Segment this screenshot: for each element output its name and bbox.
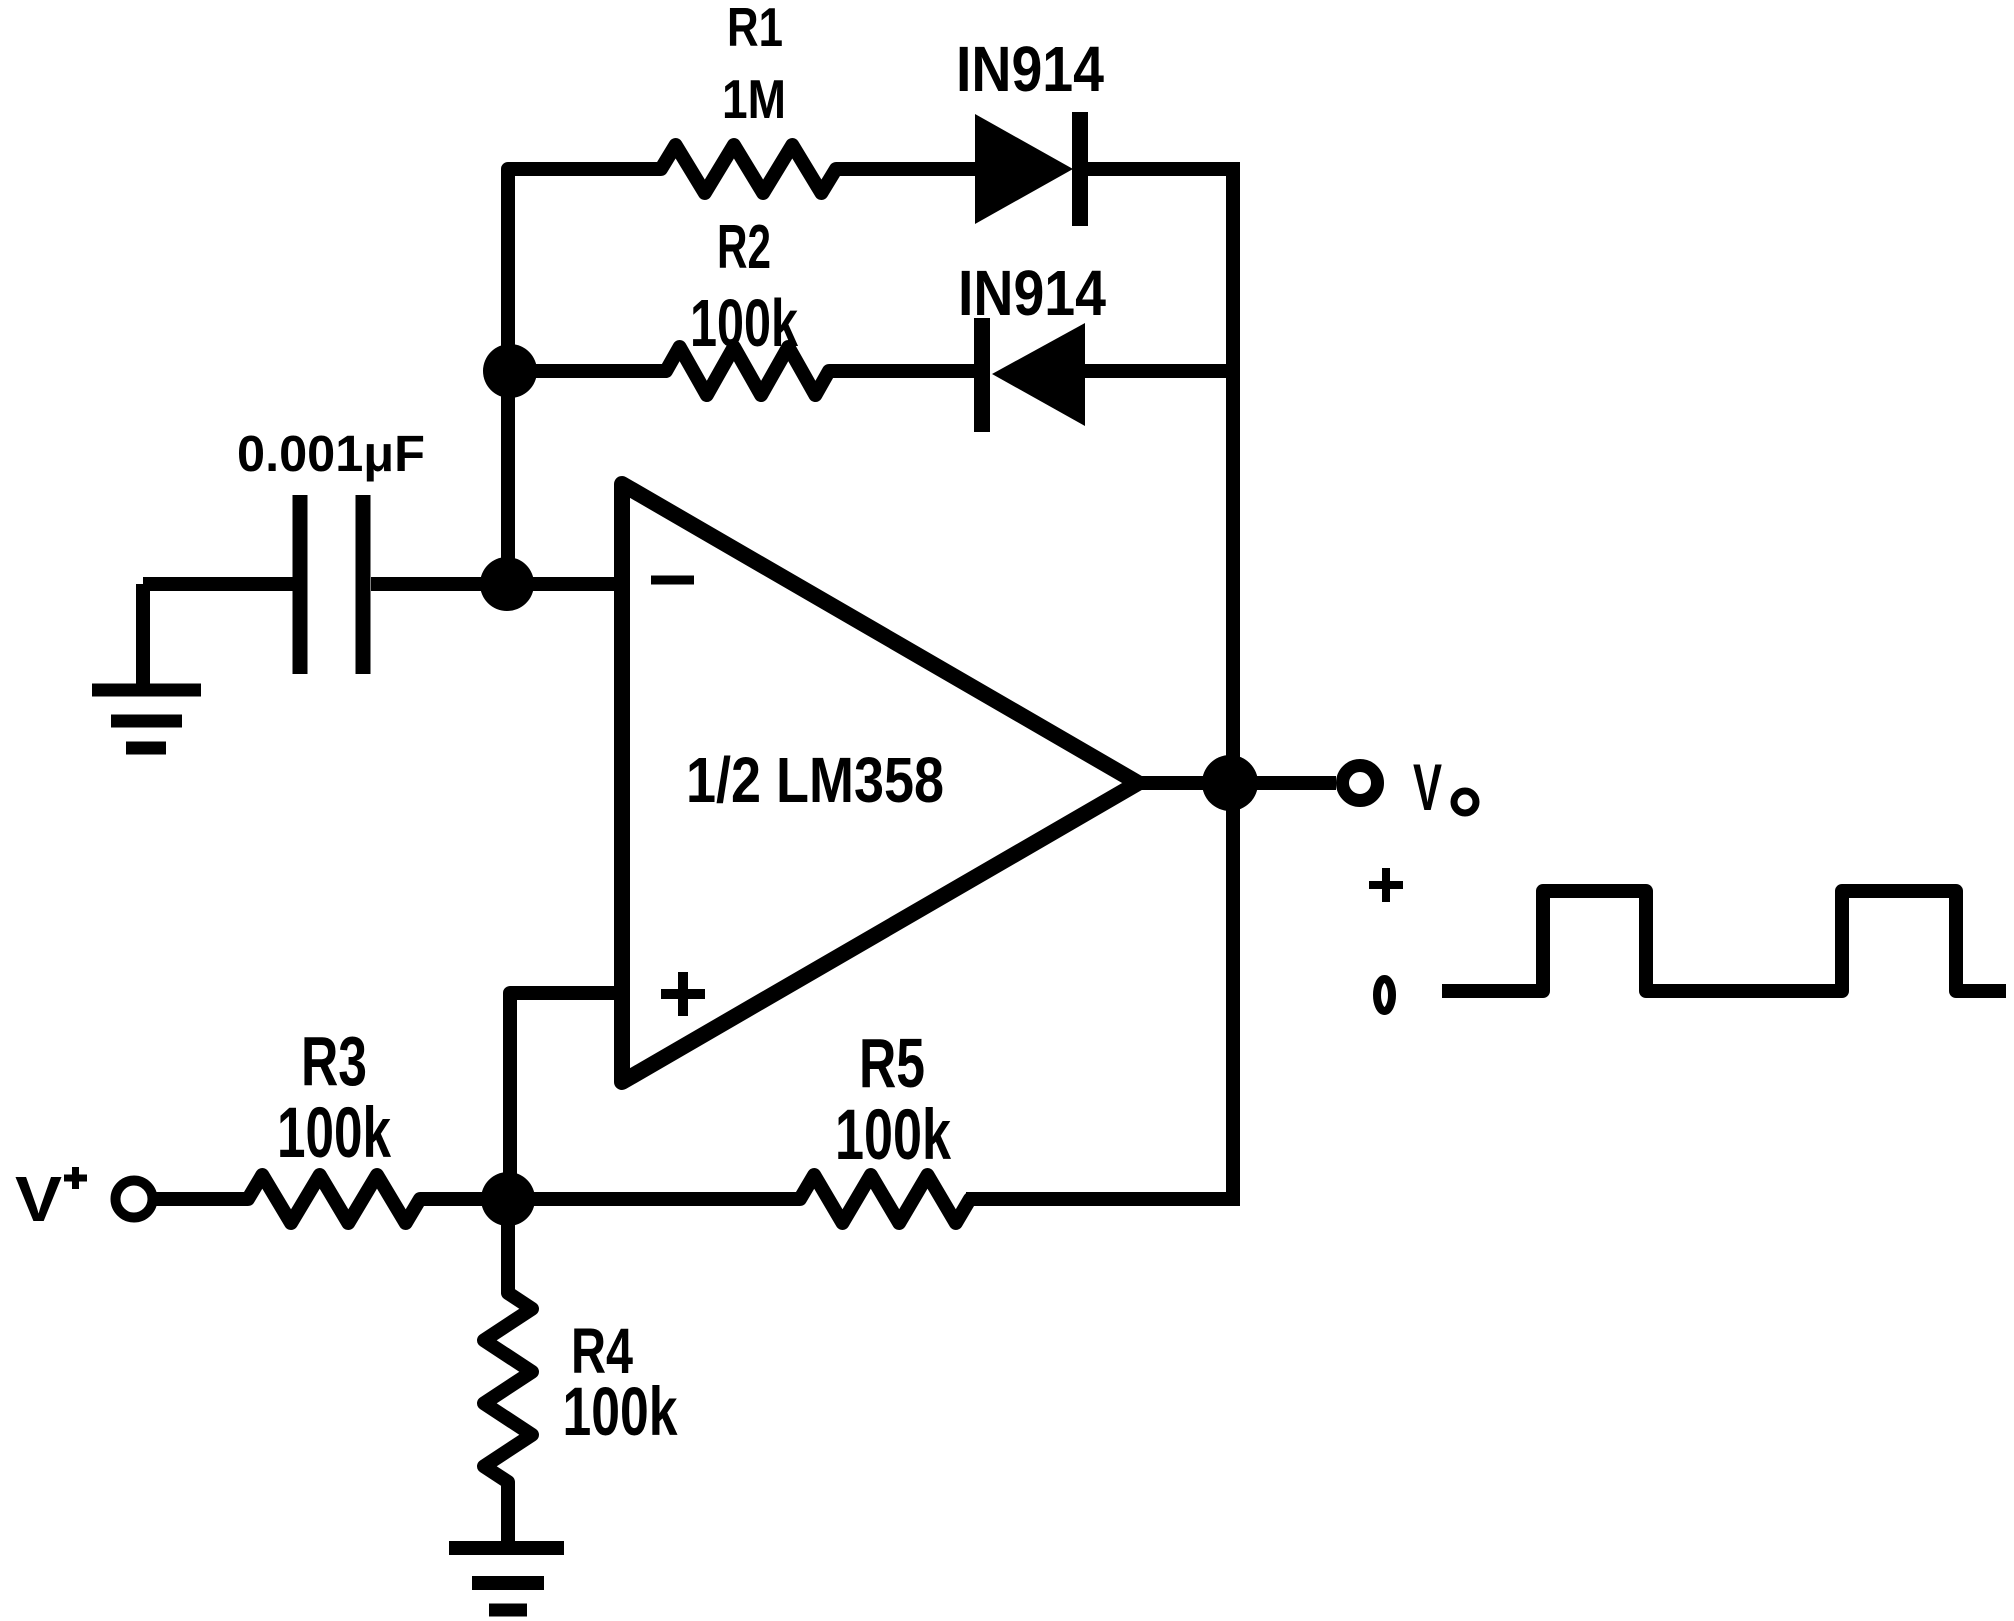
node: junction dot at R2 / left vertical <box>483 344 537 398</box>
waveform: output square wave <box>1442 891 2006 991</box>
wire: R5 to right vertical rail <box>966 1192 1240 1206</box>
node: junction dot at inverting input / left vertical <box>480 557 534 611</box>
svg-text:100k: 100k <box>277 1094 391 1173</box>
wire: bottom node down to R4 <box>501 1199 515 1293</box>
wire: R4 to ground <box>501 1482 515 1548</box>
wire: non-inverting input from bottom node up to op-amp <box>510 993 622 1199</box>
svg-text:100k: 100k <box>690 286 799 361</box>
svg-text:R5: R5 <box>859 1024 925 1102</box>
label V+ superscript plus <box>64 1167 87 1189</box>
wire: D1 cathode to right vertical <box>1086 162 1240 176</box>
op-amp non-inverting input plus sign <box>661 972 705 1016</box>
diode D1 1N914 (top, pointing right) <box>975 112 1088 226</box>
svg-text:IN914: IN914 <box>956 33 1104 105</box>
wire: R3 to bottom node and on to R5 <box>420 1192 800 1206</box>
label Vo subscript circle <box>1454 791 1476 813</box>
svg-text:V: V <box>1413 750 1442 824</box>
op-amp inverting input minus sign <box>651 576 694 585</box>
node: output junction dot <box>1202 755 1258 811</box>
diode D2 1N914 (second row, pointing left) <box>974 318 1085 432</box>
resistor R5 <box>800 1175 970 1223</box>
svg-text:V: V <box>15 1163 62 1235</box>
wire: op-amp output to Vo terminal <box>1138 776 1336 790</box>
svg-text:1/2 LM358: 1/2 LM358 <box>686 744 944 816</box>
terminal: V+ open circle <box>116 1181 153 1218</box>
resistor R2 <box>666 347 829 395</box>
resistor R3 <box>248 1175 420 1223</box>
wire: capacitor right plate to inverting input of op-amp <box>371 577 622 591</box>
op-amp U1 1/2 LM358 triangle <box>622 484 1138 1082</box>
svg-text:1M: 1M <box>722 68 786 130</box>
terminal: Vo open circle <box>1343 766 1378 801</box>
waveform zero level label 0 <box>1377 979 1392 1011</box>
wire: R2 row from left vertical to R2 <box>508 364 666 378</box>
waveform plus symbol <box>1369 868 1403 902</box>
node: bottom junction dot (R3/R4/R5/+input) <box>481 1172 535 1226</box>
svg-text:100k: 100k <box>563 1373 678 1450</box>
svg-text:R1: R1 <box>727 0 783 58</box>
wire: left vertical from top feedback row down to inverting-input node <box>508 169 661 584</box>
wire: V+ terminal to R3 <box>152 1192 248 1206</box>
svg-text:IN914: IN914 <box>958 257 1106 329</box>
svg-text:0.001μF: 0.001μF <box>237 425 425 482</box>
wire: D2 to right vertical <box>1083 364 1240 378</box>
wire: R1 to diode D1 anode <box>836 162 977 176</box>
resistor R1 <box>661 145 836 193</box>
resistor R4 <box>484 1293 532 1482</box>
wire: right vertical rail from top feedback row to bottom R5 row <box>1226 162 1240 1199</box>
ground (bottom, for R4) <box>449 1548 564 1610</box>
svg-text:R2: R2 <box>717 213 771 282</box>
svg-text:100k: 100k <box>835 1096 951 1175</box>
wire: ground to capacitor left plate <box>143 577 293 591</box>
capacitor C1 0.001uF <box>300 495 363 674</box>
wire: R2 to diode D2 cathode <box>829 364 980 378</box>
svg-text:R3: R3 <box>301 1022 367 1100</box>
ground (left, for capacitor) <box>92 584 201 748</box>
